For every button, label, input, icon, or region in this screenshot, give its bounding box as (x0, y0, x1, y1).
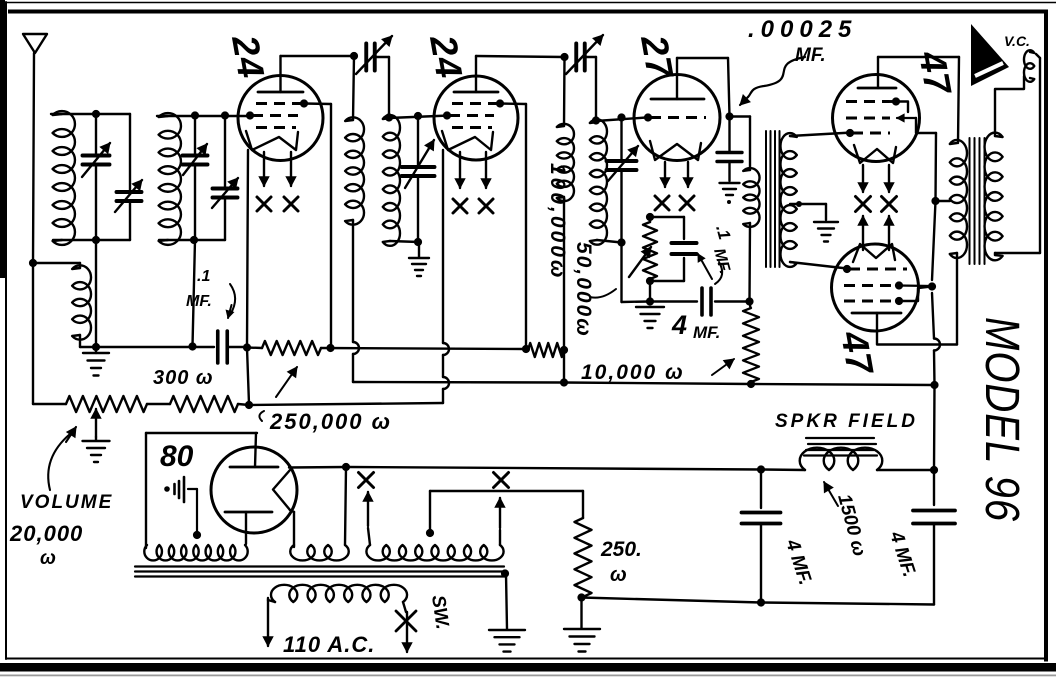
capacitor C14 4MF right (913, 470, 955, 605)
coil T1 primary (345, 117, 364, 224)
label MODEL 96 (975, 317, 1028, 522)
node C13 bottom (757, 598, 765, 606)
wire cathode return (249, 403, 443, 405)
label 4 MF left (781, 536, 816, 588)
transformer T4 core (970, 138, 985, 264)
tube V5 envelope (832, 244, 919, 331)
svg-text:20,000: 20,000 (9, 521, 83, 546)
resistor R2 100000 (528, 343, 564, 357)
node C7 top (414, 112, 422, 120)
label 250000 (259, 367, 392, 434)
wire pot middle (147, 403, 170, 405)
node C8 left (560, 53, 568, 61)
ground G6 (564, 629, 600, 652)
node C6 left (350, 52, 358, 60)
variable capacitor C4 (183, 144, 208, 175)
label 10000 (581, 359, 734, 384)
coil L1 secondary (53, 111, 75, 245)
svg-text:50,000ω: 50,000ω (572, 242, 595, 338)
svg-text:MF.: MF. (795, 45, 826, 66)
svg-text:300 ω: 300 ω (153, 367, 214, 389)
wire T3 pri bottom (748, 223, 751, 301)
label .1 MF (186, 268, 235, 318)
resistor R7 300 (170, 396, 238, 412)
wire primary right arrow (402, 602, 412, 652)
tube V2 plate (454, 56, 498, 92)
ground G1 (83, 347, 109, 376)
wire C8 right to IF2 sec (585, 57, 596, 121)
heater X mark left (359, 473, 374, 488)
node R1 right / V1 screen (326, 344, 334, 352)
node C9 top (617, 113, 625, 121)
wire T3 sec CT (790, 204, 826, 220)
capacitor C13 4MF left (742, 470, 781, 603)
node cathode/pot junction (245, 401, 253, 409)
label 50000 leader (590, 289, 616, 298)
wire IF1 sec bottom (390, 241, 419, 242)
label 100000 vertical (546, 163, 569, 280)
tube V5 grid row (843, 265, 907, 273)
tube V3 heater arrows (660, 162, 693, 187)
chassis symbol (164, 477, 197, 534)
wire antenna to coil L2 (33, 263, 80, 268)
tube V4 grid2 row (846, 117, 890, 120)
tube V5 filament (853, 244, 895, 262)
resistor R5 250 (575, 518, 592, 597)
svg-text:V.C.: V.C. (1004, 33, 1030, 49)
node T3 CT (796, 201, 802, 207)
wire wiper ground (95, 437, 97, 440)
wire det output (649, 300, 697, 302)
svg-text:250,000 ω: 250,000 ω (269, 409, 392, 434)
wire V3 plate to T3 (730, 117, 751, 171)
tube V5 screen row (844, 297, 903, 305)
tube V6 anode bottom (225, 512, 272, 544)
svg-text:250.: 250. (600, 538, 642, 561)
tube V2 heater arrows (455, 152, 491, 188)
wire V1 screen drop (330, 104, 332, 346)
wire T4 sec bottom (995, 58, 1040, 255)
wire screen feed line (932, 133, 940, 470)
node B+ takeoff (342, 463, 350, 471)
node bus junction 1 (560, 378, 568, 386)
ground G7 (489, 630, 525, 652)
tube V3 heater X marks (655, 196, 694, 210)
wire heater left arrow (363, 492, 373, 545)
label SPKR FIELD (775, 411, 918, 432)
wire IF1 to ground (418, 242, 420, 257)
node tube1 cathode junction (243, 343, 251, 351)
node IF2 sec bottom (617, 238, 625, 246)
transformer core (135, 567, 505, 577)
node V2 screen junction (522, 345, 530, 353)
node C4 top (191, 111, 199, 119)
wire V2 plate to trimmer (476, 56, 564, 57)
coil T4 secondary (985, 133, 1003, 261)
label .00025 MF (740, 16, 857, 105)
tube V5 plate (852, 313, 901, 344)
tube V1 plate (258, 56, 303, 92)
wire IF2 bottom drop (622, 243, 650, 302)
label SW (427, 594, 453, 631)
label tube V2 24 (422, 31, 470, 82)
speaker cone (971, 24, 1009, 86)
node V5 screen junction (928, 282, 936, 290)
node IF1 sec top (385, 113, 393, 121)
svg-text:80: 80 (160, 440, 194, 473)
wire IF2 sec top (596, 118, 646, 122)
label 250 (600, 538, 642, 586)
wire tuning branch stage2 (194, 116, 196, 240)
tube V4 grid2 lead (897, 114, 936, 133)
node IF1 sec bottom (414, 238, 422, 246)
svg-text:4: 4 (671, 310, 687, 340)
wire IF2 pri drop (563, 197, 565, 348)
tube V1 inner row (256, 126, 296, 129)
tube V6 anode top (230, 433, 278, 467)
svg-text:.1: .1 (197, 268, 210, 285)
heater X marks output pair (856, 197, 897, 212)
coil L2 antenna primary (72, 265, 91, 339)
wire core to ground (506, 574, 507, 629)
tube V3 envelope (634, 75, 720, 161)
coil heater winding (366, 545, 503, 560)
svg-text:47: 47 (833, 327, 881, 379)
wire T4 sec top (995, 76, 1024, 136)
tube V6 filament (273, 470, 290, 510)
node C1 top (92, 110, 100, 118)
tube V4 screen row (846, 97, 900, 105)
wire heater CT (430, 491, 583, 533)
ground G8 (83, 441, 110, 462)
wire C6 right to IF1 sec (375, 57, 389, 117)
svg-text:10,000 ω: 10,000 ω (581, 361, 685, 384)
tube V4 heater arrows (858, 165, 894, 192)
svg-text:24: 24 (422, 31, 470, 82)
wire B+ to choke (289, 467, 805, 470)
tube V3 grid row (644, 113, 706, 121)
wire V2 cathode drop (443, 150, 449, 403)
coil HV winding (144, 545, 247, 560)
coil T1 secondary (383, 115, 400, 246)
wire R5 to ground (580, 598, 582, 628)
node stage1 ground junction (92, 343, 100, 351)
node R2 right (560, 346, 568, 354)
wire stage1 to ground bus (95, 240, 97, 347)
trimmer capacitor C2 (115, 180, 142, 212)
tube V1 grid row (246, 111, 298, 119)
tube V4 filament (854, 145, 896, 163)
wire IF2 sec bottom (597, 240, 622, 243)
tube V2 heater X marks (453, 199, 493, 213)
node HV winding CT (193, 531, 201, 539)
wire IF2 pri to bus (563, 352, 565, 382)
node V3 plate junction (725, 112, 733, 120)
wire trimmer branch stage2 (224, 116, 226, 240)
tube V2 inner row (452, 126, 492, 129)
tube V1 envelope (238, 76, 323, 161)
svg-text:MF.: MF. (693, 323, 720, 342)
svg-text:.00025: .00025 (748, 16, 857, 43)
node heater CT (426, 529, 434, 537)
tube V4 grid row (846, 129, 890, 137)
label VOLUME (9, 427, 113, 569)
label 50000 vertical (572, 242, 595, 338)
coil T2 primary (557, 124, 574, 201)
coil voice coil (1024, 50, 1040, 82)
wire primary left arrow (263, 598, 275, 646)
coil T4 primary (950, 140, 967, 258)
wire V2 screen drop (525, 104, 527, 347)
primary X mark (396, 611, 416, 631)
resistor R6 volume 20000 (66, 396, 147, 412)
ground G3 (636, 307, 664, 328)
wire B+ bus (353, 382, 934, 385)
wire L1 bottom (53, 239, 130, 241)
label 300 (153, 367, 214, 389)
wire V1 screen lead (304, 102, 331, 105)
heater X mark right (494, 473, 509, 488)
wire T3 sec bottom to V5 grid (790, 262, 847, 269)
trimmer capacitor C8 (566, 35, 603, 74)
tube V5 heater arrows (858, 216, 894, 250)
label tube V4 47 (911, 47, 959, 99)
ground G2 (409, 258, 429, 276)
tube V4 envelope (833, 75, 920, 162)
wire IF1 sec top (389, 116, 449, 119)
label 110 A.C. (283, 632, 375, 657)
wire IF1 pri feed (353, 56, 354, 120)
svg-text:110 A.C.: 110 A.C. (283, 632, 375, 657)
label 4 MF right (885, 528, 920, 580)
wire L3 bottom (159, 239, 225, 241)
node OPT CT (931, 197, 939, 205)
wire pot right (238, 404, 249, 405)
variable capacitor C9 (607, 146, 639, 181)
wire screen bus y348 (247, 348, 526, 350)
tube V6 envelope (211, 447, 297, 533)
choke field coil (800, 448, 883, 470)
ground G4 (720, 183, 740, 204)
capacitor C10 (672, 243, 697, 254)
svg-text:27: 27 (633, 31, 681, 83)
wire efter C12 (715, 300, 750, 302)
label tube V5 47 (833, 327, 881, 379)
svg-text:MODEL 96: MODEL 96 (975, 317, 1028, 522)
wire V5 plate to OPT (877, 253, 957, 345)
wire cathode node to pot (247, 348, 249, 404)
resistor R3 50000 variable (629, 217, 657, 279)
node screen bus junction (930, 381, 938, 389)
wire T4 CT (936, 200, 951, 202)
wire V4 plate to OPT (878, 57, 959, 143)
wire V6 fil bottom (290, 510, 294, 547)
capacitor C12 4MF (702, 288, 711, 315)
node stage2 ground junction (188, 342, 196, 350)
wire IF2 tuning branch (620, 118, 622, 244)
svg-text:SPKR FIELD: SPKR FIELD (775, 411, 918, 432)
label tube V3 27 (633, 31, 681, 83)
wire det to ground (649, 281, 651, 302)
wire cap to cathode node (228, 346, 244, 348)
wire 80 plate top loop (146, 433, 257, 548)
node IF2 sec top (592, 116, 600, 124)
label 4 MF det (671, 310, 720, 342)
svg-text:ω: ω (40, 548, 56, 569)
wire T3 sec top to V4 grid (790, 133, 852, 137)
node antenna-coil junction (29, 259, 37, 267)
wire pot left (33, 403, 66, 405)
wire L1 top (51, 113, 130, 115)
tube V5 screen leads (899, 286, 931, 302)
tube V1 filament (246, 131, 298, 150)
svg-text:VOLUME: VOLUME (20, 492, 113, 513)
coil T2 secondary (590, 119, 607, 244)
node stage2 bottom (190, 236, 198, 244)
wire L3 top / tube1 grid (157, 115, 252, 117)
node det ground junction (646, 297, 654, 305)
coil T3 secondary (780, 133, 796, 267)
choke core (804, 438, 877, 456)
tube V1 screen row (256, 99, 308, 107)
coil T3 primary (743, 168, 759, 227)
node R4 bottom (747, 380, 755, 388)
tube V2 filament (442, 131, 493, 150)
resistor R1 250000 (262, 341, 321, 355)
svg-text:ω: ω (610, 564, 627, 586)
wire heater right arrow (495, 498, 505, 545)
wire L2 bottom (79, 335, 81, 347)
tube V1 heater arrows (259, 152, 296, 186)
label .1MF vertical (698, 223, 734, 284)
node core ground tap (501, 569, 509, 577)
wire V4 screen lead (897, 102, 908, 113)
wire 80fil to B+ (345, 467, 346, 545)
wire right branch stage1 (129, 114, 131, 240)
capacitor C3 .1MF (218, 331, 228, 363)
node choke right (930, 466, 938, 474)
coil L3 stage2 (159, 113, 181, 245)
tube V1 heater X marks (257, 197, 298, 211)
wire tuning cap branch 1 (95, 114, 97, 240)
tube V5 grid2 row (844, 281, 903, 289)
label 1500 (824, 482, 870, 559)
tube V3 filament (650, 141, 701, 160)
trimmer capacitor C6 (356, 36, 392, 74)
node T3 pri bottom (745, 297, 753, 305)
wire V2 screen lead (500, 102, 526, 105)
tube V2 screen row (452, 99, 504, 107)
capacitor C11 .00025 (717, 117, 742, 182)
node C5 top (221, 111, 229, 119)
tube V4 plate (858, 57, 896, 88)
wire IF2 pri feed (563, 57, 566, 126)
node det cathode bottom (646, 277, 654, 285)
transformer T3 core (766, 131, 780, 267)
wire antenna lead down (33, 53, 34, 404)
node choke left (757, 465, 765, 473)
label tube V6 80 (160, 440, 194, 473)
node stage1 bottom (92, 236, 100, 244)
svg-text:MF.: MF. (186, 293, 212, 310)
variable capacitor C7 (402, 140, 435, 188)
wire IF1 pri to B+ bus (353, 220, 359, 382)
coil primary winding (271, 585, 407, 602)
wire stage2 to ground bus (193, 240, 196, 346)
tube V2 envelope (434, 76, 518, 160)
trimmer capacitor C5 (212, 178, 238, 208)
wire V1 plate to trimmer (281, 55, 355, 57)
node det cathode top (646, 213, 654, 221)
coil 80 filament winding (290, 545, 348, 560)
wire R4 top (750, 302, 751, 309)
wire V1 cathode drop (247, 150, 248, 347)
svg-text:24: 24 (224, 31, 272, 82)
wire IF1 tuning branch (417, 116, 419, 242)
label tube V1 24 (224, 31, 272, 82)
tube V3 plate (651, 58, 704, 99)
wire ground bus y347 (80, 346, 214, 348)
wire det cap branch (650, 217, 684, 281)
label V.C. (1004, 33, 1030, 49)
node R5 bottom (577, 593, 585, 601)
svg-text:47: 47 (911, 47, 959, 99)
wire bottom return (582, 598, 935, 605)
resistor R4 10000 (743, 308, 759, 382)
ground G5 (814, 222, 838, 242)
wire V3 plate lead (677, 58, 730, 116)
wire choke right (877, 469, 934, 471)
variable capacitor C1 (82, 143, 110, 177)
pot wiper arrow (91, 409, 101, 437)
tube V2 grid row (443, 111, 494, 119)
antenna (23, 34, 47, 53)
